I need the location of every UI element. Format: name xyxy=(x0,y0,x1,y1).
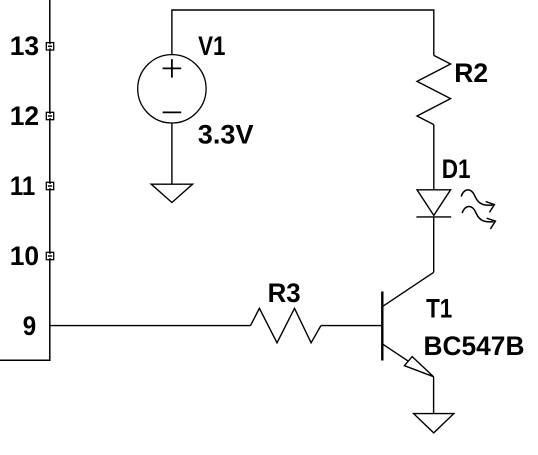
resistor R2 xyxy=(417,55,451,124)
ground V1 xyxy=(151,184,192,202)
svg-text:11: 11 xyxy=(10,171,35,201)
transistor T1 xyxy=(382,272,433,376)
svg-text:13: 13 xyxy=(10,31,39,61)
wire R2 to LED xyxy=(433,125,435,190)
pin 10 square xyxy=(46,252,53,259)
svg-text:T1: T1 xyxy=(426,293,452,323)
pin 11 square xyxy=(46,182,53,189)
svg-text:V1: V1 xyxy=(198,31,225,61)
svg-text:R2: R2 xyxy=(454,58,488,88)
wire V1 to ground xyxy=(171,123,173,184)
wire emitter to ground xyxy=(433,377,435,414)
svg-text:12: 12 xyxy=(10,101,39,131)
pin 13 square xyxy=(46,43,53,50)
svg-text:10: 10 xyxy=(10,241,39,271)
svg-text:D1: D1 xyxy=(442,154,471,184)
wire R3 to transistor base xyxy=(321,325,381,327)
svg-text:3.3V: 3.3V xyxy=(198,119,254,149)
pin 12 square xyxy=(46,112,53,119)
resistor R3 xyxy=(251,308,321,343)
voltage source V1 xyxy=(138,55,206,123)
svg-text:R3: R3 xyxy=(268,278,301,308)
connector box edge xyxy=(0,0,50,360)
LED D1 xyxy=(416,190,451,217)
wire LED cathode to collector xyxy=(433,217,435,272)
ground emitter xyxy=(414,414,454,433)
LED light arrow 2 xyxy=(462,206,495,229)
wire top rail xyxy=(172,10,434,55)
svg-text:BC547B: BC547B xyxy=(424,331,525,361)
wire pin 9 to R3 xyxy=(50,325,251,327)
svg-text:9: 9 xyxy=(23,311,36,341)
LED light arrow 1 xyxy=(461,190,494,213)
